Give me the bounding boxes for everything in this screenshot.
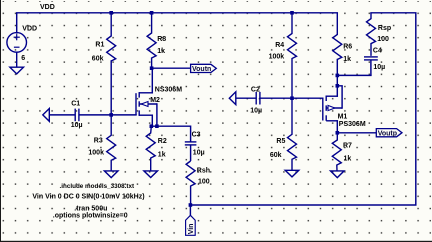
- wire M2 bulk to node S1: [156, 104, 158, 126]
- svg-text:M2: M2: [150, 97, 160, 104]
- svg-text:Rsh: Rsh: [197, 168, 210, 175]
- capacitor C4: [364, 57, 378, 76]
- wire R1 bottom to node A: [110, 61, 112, 115]
- wire VDD rail: [17, 13, 338, 33]
- svg-text:Vin Vin 0 DC 0 SIN(0 10mV 10kH: Vin Vin 0 DC 0 SIN(0 10mV 10kHz): [32, 193, 144, 200]
- svg-text:1k: 1k: [344, 155, 352, 162]
- resistor R2: [146, 126, 155, 171]
- capacitor C3: [185, 142, 197, 161]
- wire node S1 to C3: [151, 126, 191, 141]
- svg-text:Voutn: Voutn: [192, 66, 211, 73]
- wire Voutn node to port: [152, 67, 191, 69]
- svg-text:R5: R5: [276, 138, 285, 145]
- svg-text:10µ: 10µ: [373, 64, 385, 71]
- capacitor C1: [75, 109, 79, 122]
- wire node C to C4 bottom: [337, 74, 371, 76]
- node S1 (M2 source / R2): [150, 124, 154, 128]
- wire C1 left lead from input arrow: [49, 114, 74, 116]
- svg-text:R3: R3: [94, 138, 103, 145]
- svg-text:Voutp: Voutp: [378, 130, 397, 137]
- svg-text:1k: 1k: [343, 56, 351, 63]
- input arrow at C2: [229, 92, 236, 105]
- resistor R7: [332, 133, 341, 171]
- wire C2 to node B to M1 gate: [260, 97, 323, 99]
- voltage source VDD: [7, 33, 27, 68]
- svg-text:R8: R8: [157, 36, 166, 43]
- resistor R1: [107, 13, 116, 61]
- svg-text:100: 100: [198, 179, 210, 186]
- node D (M1 source / bulk): [336, 84, 340, 88]
- resistor R6: [333, 13, 342, 60]
- svg-text:10µ: 10µ: [193, 149, 205, 156]
- node Voutn (R8 / M2 drain): [150, 66, 154, 70]
- svg-text:60k: 60k: [270, 152, 282, 159]
- node A (C1 / R1 / R3 / M2 gate): [109, 113, 113, 117]
- svg-text:R4: R4: [275, 42, 284, 49]
- junction M2 bulk on node S1: [155, 124, 159, 128]
- resistor R4: [288, 13, 297, 98]
- svg-text:60k: 60k: [92, 55, 104, 62]
- ground below VDD source: [10, 67, 24, 74]
- capacitor C2: [256, 92, 260, 105]
- svg-text:C4: C4: [373, 47, 382, 54]
- port Voutn: [191, 64, 217, 73]
- svg-text:.options plotwinsize=0: .options plotwinsize=0: [53, 213, 128, 220]
- node C (R6 / C4 wire): [336, 74, 340, 78]
- ground below R2: [144, 171, 158, 178]
- svg-text:.tran 500u: .tran 500u: [74, 206, 107, 213]
- node B (C2 / R4 / R5 / M1 gate): [290, 96, 294, 100]
- port Voutp: [376, 129, 402, 138]
- wire Voutp node to port: [337, 132, 376, 134]
- svg-text:6: 6: [21, 55, 25, 62]
- svg-text:C1: C1: [71, 100, 80, 107]
- resistor R8: [147, 13, 156, 68]
- svg-text:10µ: 10µ: [250, 108, 262, 115]
- svg-text:VDD: VDD: [40, 4, 55, 11]
- input arrow at C1: [43, 109, 50, 122]
- svg-text:PS306M: PS306M: [339, 121, 366, 128]
- node Voutp (M1 drain / R7): [336, 131, 340, 135]
- svg-text:100k: 100k: [269, 54, 285, 61]
- wire M2 source to node S1: [151, 115, 153, 126]
- svg-text:C2: C2: [251, 86, 260, 93]
- svg-text:R2: R2: [158, 138, 167, 145]
- wire Vin loop: bottom rail and right edge up to Rsp: [190, 13, 415, 205]
- svg-text:NS306M: NS306M: [155, 86, 182, 93]
- resistor R3: [107, 115, 116, 171]
- wire C1 right lead to node A: [79, 114, 111, 116]
- svg-text:M1: M1: [338, 113, 348, 120]
- resistor Rsp: [367, 13, 376, 56]
- wire M1 bulk jog to node D: [337, 86, 342, 108]
- resistor Rsh: [186, 161, 195, 205]
- window border left+bottom: [0, 0, 1, 242]
- svg-text:10µ: 10µ: [71, 122, 83, 129]
- wire R6 bottom through nodes to M1 source: [336, 60, 338, 97]
- ground below R5: [285, 170, 299, 177]
- svg-text:R7: R7: [343, 143, 352, 150]
- transistor M1 PS306M: [323, 96, 342, 121]
- svg-text:R6: R6: [343, 43, 352, 50]
- svg-text:R1: R1: [95, 42, 104, 49]
- svg-text:C3: C3: [192, 131, 201, 138]
- wire R8 bottom node to M2 drain: [151, 68, 153, 93]
- wire node A to M2 gate: [111, 114, 136, 116]
- svg-text:1k: 1k: [158, 152, 166, 159]
- ground below R7: [331, 171, 345, 178]
- resistor R5: [288, 98, 297, 170]
- junction rail-R1: [109, 11, 113, 15]
- svg-text:100: 100: [377, 36, 389, 43]
- svg-text:Vin: Vin: [188, 224, 195, 235]
- svg-text:1k: 1k: [157, 48, 165, 55]
- wire M1 drain to Voutp node: [336, 121, 338, 133]
- svg-text:Rsp: Rsp: [378, 25, 391, 32]
- junction rail-R8: [150, 11, 154, 15]
- svg-text:.include models_3308.txt: .include models_3308.txt: [60, 183, 135, 190]
- wire Vin node to port tip: [189, 205, 191, 215]
- node Vin junction: [189, 203, 193, 207]
- ground below R3: [104, 171, 118, 178]
- wire C2 gate line: [236, 97, 256, 99]
- svg-text:100k: 100k: [88, 149, 104, 156]
- svg-text:VDD: VDD: [22, 25, 37, 32]
- transistor M2 NS306M: [136, 92, 157, 116]
- port Vin: [186, 215, 196, 235]
- junction rail-R4: [290, 11, 294, 15]
